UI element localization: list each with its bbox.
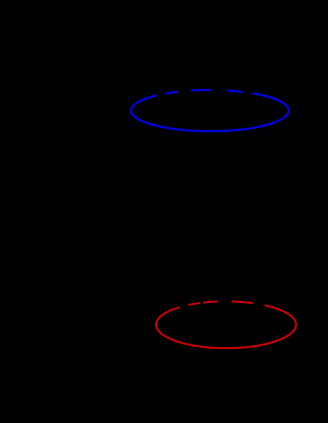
blue loop (top ellipse) dashed back arc — [156, 90, 254, 96]
red loop (bottom ellipse) solid front arc — [156, 305, 296, 348]
red loop (bottom ellipse) dashed back arc — [179, 301, 266, 307]
blue loop (top ellipse) solid front arc — [131, 93, 289, 131]
